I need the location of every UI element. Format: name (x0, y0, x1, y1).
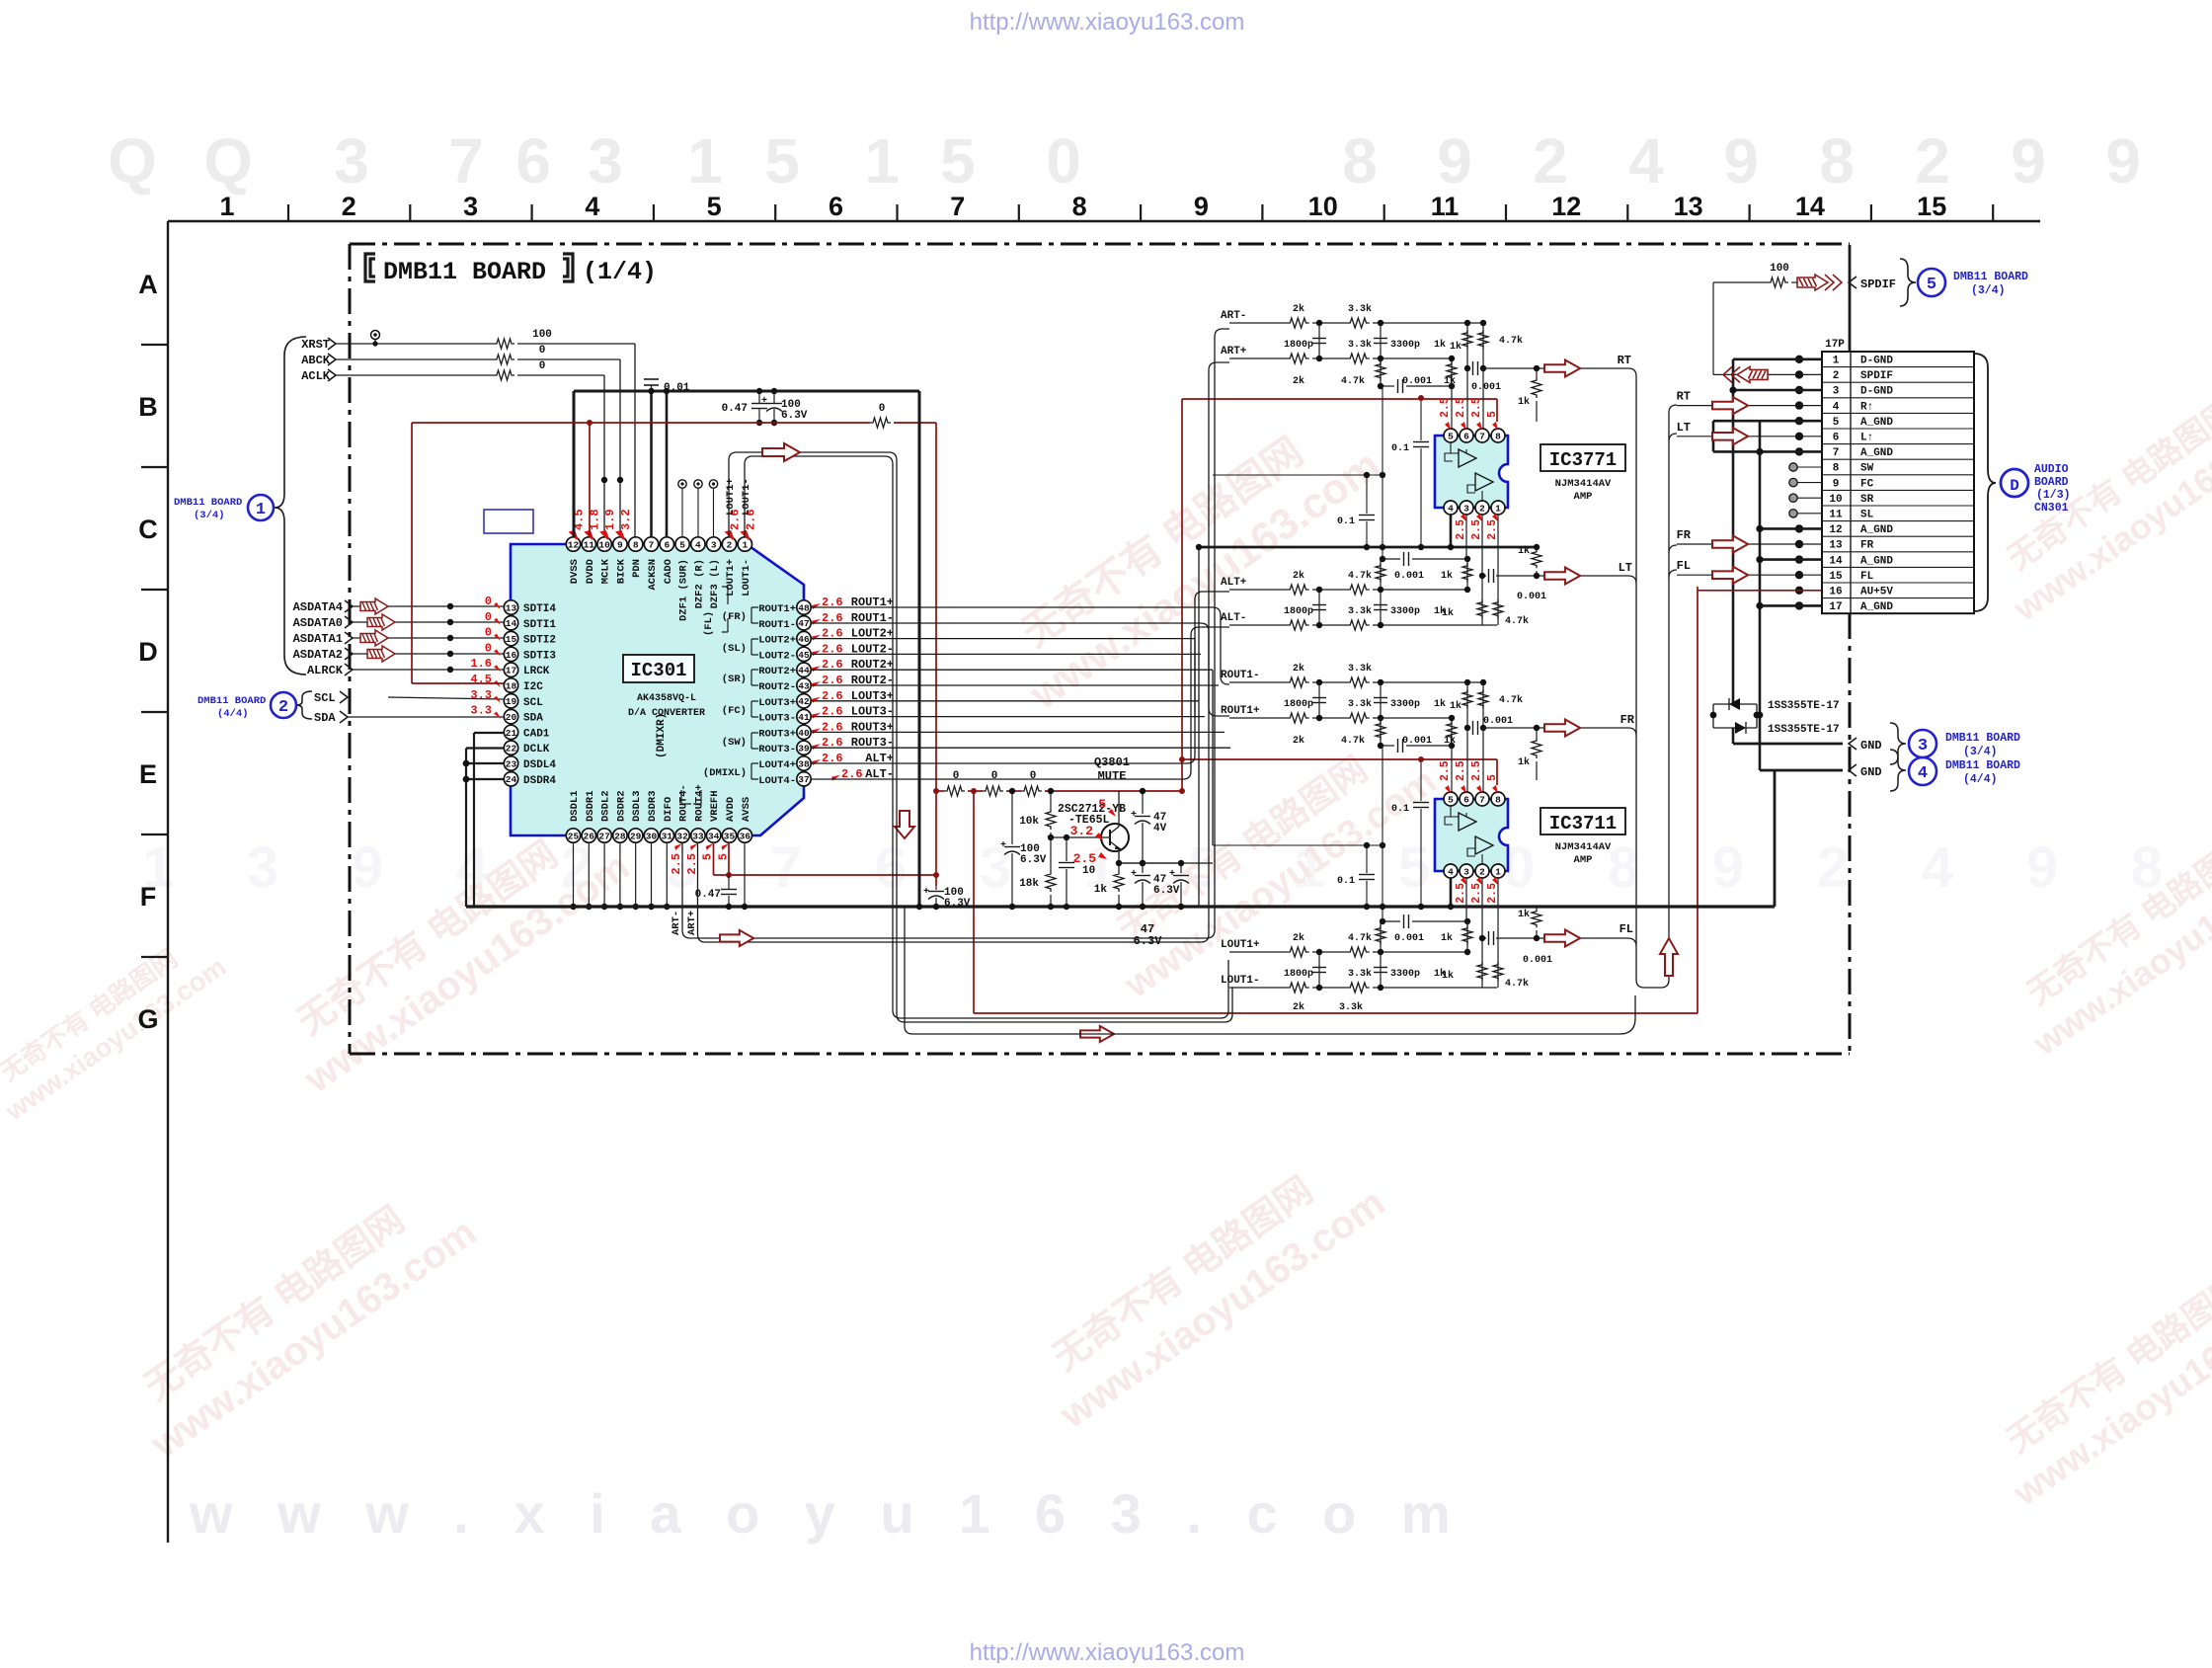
svg-text:8: 8 (1342, 125, 1378, 197)
svg-text:A_GND: A_GND (1860, 601, 1893, 613)
svg-text:2.5: 2.5 (1486, 883, 1499, 904)
wire XRST (336, 343, 494, 345)
resistor 0 (mute rail 3) (1021, 786, 1042, 796)
pin 36 AVSS (738, 829, 751, 842)
resistor 1k pairA (1481, 576, 1483, 625)
svg-text:0.1: 0.1 (1391, 443, 1409, 454)
svg-text:0.1: 0.1 (1391, 804, 1409, 815)
svg-text:2.5: 2.5 (1486, 519, 1499, 540)
svg-text:+: + (1000, 840, 1006, 851)
svg-text:4.7k: 4.7k (1505, 615, 1529, 627)
svg-text:FL: FL (1619, 922, 1633, 936)
svg-text:2: 2 (1833, 370, 1840, 382)
svg-text:IC3711: IC3711 (1549, 813, 1617, 834)
svg-text:17: 17 (1829, 601, 1842, 613)
svg-text:17P: 17P (1825, 339, 1845, 351)
svg-text:1k: 1k (1441, 932, 1453, 944)
svg-text:15: 15 (1829, 571, 1843, 583)
pin 41 LOUT3- (797, 709, 811, 723)
svg-text:3: 3 (980, 835, 1011, 900)
red wire down to I2C (411, 423, 413, 683)
capacitor 47 (right) (1180, 863, 1182, 873)
pin 9 BICK (613, 537, 627, 551)
red arrow on LOUT1 route (762, 443, 800, 461)
svg-text:32: 32 (676, 831, 688, 841)
svg-text:AMP: AMP (1574, 491, 1593, 503)
svg-text:39: 39 (798, 744, 810, 755)
svg-text:DMB11 BOARD: DMB11 BOARD (1945, 759, 2020, 772)
bottom pin ground drops (573, 842, 575, 907)
brace group DMB11 BOARD 2 SCL/SDA (296, 691, 312, 719)
pin 33 ROUT4+ (691, 829, 705, 842)
svg-text:SDTI3: SDTI3 (523, 650, 556, 662)
svg-text:DMB11 BOARD: DMB11 BOARD (197, 695, 266, 707)
svg-text:4: 4 (1922, 835, 1953, 900)
pin 11 DVDD (582, 537, 595, 551)
svg-text:3.3k: 3.3k (1348, 303, 1372, 315)
svg-text:3.2: 3.2 (1070, 824, 1094, 838)
svg-text:1: 1 (1495, 866, 1501, 877)
op IC301 D/A converter body (511, 544, 804, 835)
svg-text:ALT+: ALT+ (1221, 577, 1247, 589)
FR join curve (1628, 728, 1636, 736)
svg-text:8: 8 (1833, 463, 1840, 475)
svg-text:6.3V: 6.3V (1020, 854, 1047, 866)
resistor 4.7k colL (1380, 921, 1382, 952)
IC3771 ground pin4 (1450, 515, 1453, 547)
svg-text:11: 11 (1829, 510, 1843, 521)
capacitor 0.1 B2 (1366, 845, 1368, 873)
svg-text:DSDL4: DSDL4 (523, 759, 556, 771)
pin 22 DCLK (504, 741, 517, 755)
svg-text:3: 3 (588, 125, 623, 197)
wire ABCK (336, 358, 494, 360)
svg-text:7: 7 (1479, 794, 1485, 805)
svg-text:3300p: 3300p (1390, 606, 1420, 617)
wire LOUT2/ROUT2 extensions (894, 638, 1195, 640)
svg-text:13: 13 (1829, 540, 1843, 552)
svg-text:LOUT1-: LOUT1- (741, 559, 752, 596)
vertical trunk x1400 upper (1382, 386, 1383, 559)
wire SDTI4 (353, 605, 504, 607)
svg-text:http://www.xiaoyu163.com: http://www.xiaoyu163.com (970, 9, 1245, 36)
svg-text:33: 33 (692, 831, 704, 841)
capacitor 1800p (1318, 682, 1320, 718)
svg-text:1k: 1k (1450, 341, 1461, 353)
svg-text:42: 42 (798, 696, 810, 707)
wires network ART to IC3771 inputs (1451, 386, 1453, 429)
svg-text:DSDL3: DSDL3 (631, 790, 643, 822)
emitter wire to right column (1119, 862, 1181, 864)
svg-text:8: 8 (1495, 794, 1501, 805)
svg-text:SPDIF: SPDIF (1860, 278, 1896, 291)
pin 32 ROUT4- (675, 829, 689, 842)
connector brace right (1974, 354, 1996, 611)
pin 45 LOUT2- (797, 647, 811, 661)
pin 15 SDTI2 (504, 631, 517, 645)
red trunk x948 (935, 423, 937, 886)
svg-text:4.7k: 4.7k (1341, 735, 1365, 747)
svg-text:0: 0 (953, 770, 960, 782)
svg-text:4: 4 (695, 539, 701, 550)
hatched arrow SPDIF out (1723, 366, 1768, 382)
svg-text:RT: RT (1677, 390, 1691, 404)
svg-text:1k: 1k (1450, 700, 1461, 712)
capacitor 100 6.3V electrolytic on bus (766, 403, 782, 405)
capacitor 1800p (1318, 952, 1320, 988)
svg-text:38: 38 (798, 758, 810, 769)
wire ACKSN to bus (650, 391, 653, 537)
svg-text:LT: LT (1677, 421, 1691, 435)
svg-text:0: 0 (485, 626, 492, 640)
signal rows RT/LT/FR/FL wires (1677, 405, 1822, 407)
op-amp IC3711 body (1435, 799, 1508, 871)
svg-text:1k: 1k (1434, 339, 1446, 351)
svg-text:CADO: CADO (663, 559, 674, 584)
resistor 10k (1050, 791, 1052, 809)
pin 16 SDTI3 (504, 647, 517, 661)
svg-text:24: 24 (506, 774, 517, 785)
pin 31 DIFO (660, 829, 673, 842)
svg-text:(FR): (FR) (722, 611, 747, 623)
svg-text:MUTE: MUTE (1098, 769, 1127, 783)
svg-text:12: 12 (568, 539, 580, 550)
resistor 4.7k pairB (1497, 576, 1499, 625)
svg-text:16: 16 (1829, 587, 1842, 598)
junction dots on clock lines (601, 477, 607, 483)
resistor 1k pairA (1466, 323, 1468, 368)
op-amp A triangle (1459, 449, 1476, 467)
svg-text:(3/4): (3/4) (1971, 284, 2006, 297)
svg-text:1: 1 (1833, 356, 1840, 367)
pin 2 (1475, 501, 1489, 515)
svg-text:0.47: 0.47 (722, 403, 748, 415)
pin 34 VREFH (707, 829, 721, 842)
testpoints above DZF pins (678, 480, 686, 488)
svg-text:E: E (139, 759, 157, 789)
FL out curve (1669, 570, 1677, 578)
svg-text:4.5: 4.5 (470, 673, 492, 686)
svg-text:21: 21 (506, 728, 517, 739)
pin 14 SDTI1 (504, 616, 517, 630)
svg-text:(SW): (SW) (722, 737, 747, 749)
svg-text:22: 22 (506, 744, 517, 755)
svg-text:12: 12 (1829, 524, 1842, 536)
svg-text:ROUT1+: ROUT1+ (1221, 705, 1260, 717)
svg-text:0.001: 0.001 (1471, 382, 1501, 393)
svg-text:ART+: ART+ (686, 911, 698, 935)
svg-text:2.5: 2.5 (1470, 760, 1483, 781)
svg-text:DVDD: DVDD (585, 559, 596, 584)
svg-text:7: 7 (1479, 431, 1485, 441)
pin 29 DSDL3 (629, 829, 643, 842)
svg-text:3.3: 3.3 (470, 704, 492, 718)
pin 5 DZF1 (SUR) (675, 537, 689, 551)
svg-text:12: 12 (1551, 192, 1581, 221)
wire SDTI2 (353, 637, 504, 639)
svg-text:1: 1 (219, 192, 234, 221)
op-amp A triangle (1459, 813, 1476, 831)
svg-text:ART+: ART+ (1221, 346, 1247, 357)
pin 20 SDA (504, 709, 517, 723)
pin 1 (1491, 864, 1505, 878)
wire row2 (1229, 357, 1287, 359)
wire gnd bus to connector (1774, 770, 1777, 907)
svg-text:4: 4 (1918, 764, 1928, 783)
svg-text:AK4358VQ-L: AK4358VQ-L (637, 693, 696, 704)
svg-text:GND: GND (1860, 739, 1882, 753)
svg-text:(1/3): (1/3) (2036, 489, 2071, 502)
svg-text:3300p: 3300p (1390, 699, 1420, 710)
LT join curve (1628, 576, 1636, 584)
capacitor 0.001 tapB (1381, 745, 1394, 747)
svg-text:FR: FR (1860, 540, 1874, 552)
svg-text:A_GND: A_GND (1860, 417, 1893, 429)
svg-text:7: 7 (1833, 447, 1840, 459)
wire row2 (1229, 624, 1287, 626)
svg-text:1800p: 1800p (1284, 340, 1313, 351)
svg-text:18k: 18k (1019, 878, 1039, 890)
pin 23 DSDL4 (504, 756, 517, 770)
svg-text:ROUT4+: ROUT4+ (693, 784, 705, 822)
svg-text:4.7k: 4.7k (1505, 978, 1529, 990)
svg-text:6: 6 (664, 539, 670, 550)
brace GND4 (1890, 750, 1906, 791)
resistor 1k colR (1451, 718, 1453, 746)
svg-text:SDA: SDA (314, 711, 336, 725)
red wire AU+5V (1698, 590, 1822, 592)
svg-text:CAD1: CAD1 (523, 728, 550, 740)
svg-text:1.9: 1.9 (603, 509, 617, 530)
svg-text:43: 43 (798, 680, 810, 691)
svg-text:6: 6 (1463, 431, 1469, 441)
svg-text:4.7k: 4.7k (1499, 694, 1523, 706)
svg-text:11: 11 (584, 539, 595, 550)
pin 30 DSDR3 (644, 829, 658, 842)
svg-text:(3/4): (3/4) (1963, 746, 1998, 758)
svg-text:6.3V: 6.3V (1153, 885, 1180, 897)
capacitor 3300p (1380, 682, 1382, 718)
pin 46 LOUT2+ (797, 631, 811, 645)
pin 24 DSDR4 (504, 772, 517, 786)
pin 1 (1491, 501, 1505, 515)
svg-text:2k: 2k (1293, 1001, 1304, 1013)
svg-text:45: 45 (798, 650, 810, 661)
svg-text:DSDL1: DSDL1 (569, 790, 581, 822)
wire GND 4 (1760, 769, 1843, 772)
svg-text:0.001: 0.001 (1517, 592, 1546, 602)
wire LRCK (353, 669, 504, 671)
svg-text:2.5: 2.5 (1470, 883, 1483, 904)
pin 7 ACKSN (644, 537, 658, 551)
svg-text:1k: 1k (1518, 909, 1530, 920)
IC3771 pins 3,2 to ALT tap (1465, 515, 1467, 559)
svg-text:23: 23 (506, 758, 517, 769)
svg-text:2.5: 2.5 (670, 853, 683, 875)
svg-text:DMB11 BOARD: DMB11 BOARD (1945, 732, 2020, 745)
svg-text:R↑: R↑ (1860, 401, 1873, 413)
red feed IC3771 pin8 (1182, 398, 1497, 400)
pin 2 (1475, 864, 1489, 878)
pin 8 (1491, 429, 1505, 442)
wire ROUT1 pair from pins 48,47 (811, 607, 1229, 684)
svg-text:6.3V: 6.3V (944, 898, 971, 910)
testpoint on XRST (371, 331, 380, 340)
wire row1 (1229, 589, 1287, 591)
svg-text:LOUT4-: LOUT4- (758, 775, 796, 787)
title DMB11 BOARD (1/4) (365, 254, 375, 281)
svg-text:LOUT2+: LOUT2+ (758, 635, 796, 647)
svg-text:2.5: 2.5 (1470, 519, 1483, 540)
svg-text:0.1: 0.1 (1337, 876, 1355, 887)
svg-text:FL: FL (1860, 571, 1874, 583)
pin 1 LOUT1- (738, 537, 751, 551)
svg-text:5: 5 (701, 853, 715, 860)
svg-text:13: 13 (1674, 192, 1703, 221)
pin 12 DVSS (566, 537, 580, 551)
svg-text:10: 10 (1082, 865, 1095, 877)
svg-text:0.001: 0.001 (1394, 571, 1424, 582)
SPDIF loop wire (1713, 373, 1822, 375)
svg-text:ROUT4-: ROUT4- (678, 784, 690, 822)
blue empty annotation box (484, 510, 533, 533)
svg-text:6.3V: 6.3V (781, 410, 808, 422)
wire D-GND trunk (1849, 245, 1852, 352)
IC3711 ground pin4 (1450, 878, 1453, 907)
pin 25 DSDL1 (566, 829, 580, 842)
svg-text:46: 46 (798, 634, 810, 645)
capacitor 0.47 on bus (751, 403, 767, 405)
svg-text:4.7k: 4.7k (1341, 375, 1365, 387)
capacitor 3300p (1380, 952, 1382, 988)
svg-text:Q3801: Q3801 (1094, 755, 1130, 769)
resistor 0 on red net top (870, 418, 891, 428)
svg-text:0: 0 (539, 345, 546, 357)
svg-text:(3/4): (3/4) (194, 510, 225, 521)
wire mid link B (1213, 844, 1382, 846)
svg-text:5: 5 (1448, 794, 1454, 805)
FL join curve (1627, 938, 1636, 946)
svg-text:RT: RT (1618, 354, 1631, 367)
pin 8 (1491, 792, 1505, 806)
node 4 circled (1909, 757, 1936, 785)
svg-text:+: + (1131, 869, 1137, 880)
svg-text:0: 0 (991, 770, 998, 782)
svg-text:2.5: 2.5 (685, 853, 699, 875)
svg-text:A_GND: A_GND (1860, 555, 1893, 567)
ruler: top scale line (168, 220, 2040, 222)
resistor 4.7k pairB (1482, 323, 1484, 368)
svg-text:3.3k: 3.3k (1348, 968, 1372, 980)
svg-text:6: 6 (515, 125, 551, 197)
svg-text:0.001: 0.001 (1483, 716, 1513, 727)
pin 27 DSDL2 (597, 829, 611, 842)
wire mid link A (1213, 474, 1382, 476)
big red hollow arrow down (895, 811, 914, 838)
svg-text:7: 7 (448, 125, 484, 197)
svg-text:4.7k: 4.7k (1499, 335, 1523, 347)
svg-text:0: 0 (1046, 125, 1081, 197)
svg-text:A: A (138, 270, 158, 299)
pin 26 DSDR1 (582, 829, 595, 842)
svg-text:15: 15 (1917, 192, 1946, 221)
wire row2 (1229, 987, 1287, 989)
wire power bus top (574, 390, 919, 393)
svg-text:D: D (138, 637, 158, 667)
wire SDA (348, 716, 504, 718)
svg-text:2k: 2k (1293, 663, 1304, 675)
svg-text:AVDD: AVDD (725, 797, 737, 822)
svg-text:1: 1 (1495, 503, 1501, 514)
svg-text:5: 5 (1448, 431, 1454, 441)
svg-text:A_GND: A_GND (1860, 524, 1893, 536)
svg-text:44: 44 (798, 666, 810, 676)
svg-text:3.3: 3.3 (470, 688, 492, 702)
svg-text:2: 2 (1479, 503, 1485, 514)
svg-text:14: 14 (1829, 555, 1843, 567)
svg-text:DSDR3: DSDR3 (647, 790, 659, 822)
A_GND ladder (1712, 421, 1715, 451)
svg-text:3: 3 (1918, 737, 1928, 755)
IC3711 reference label (1540, 808, 1625, 834)
svg-text:(FC): (FC) (722, 705, 747, 717)
svg-text:D-GND: D-GND (1860, 356, 1893, 367)
svg-text:2k: 2k (1293, 303, 1304, 315)
svg-text:4.7k: 4.7k (1348, 932, 1372, 944)
hatched arrow SPDIF (1797, 275, 1842, 290)
svg-text:0.001: 0.001 (1523, 955, 1552, 966)
red arrow LT (1544, 567, 1580, 584)
svg-text:C: C (138, 515, 158, 544)
capacitor 0.001 tapA (1467, 727, 1470, 729)
red arrow FL (1544, 929, 1580, 946)
pin 19 SCL (504, 694, 517, 708)
red feed IC3711 pin8 (1182, 758, 1497, 760)
svg-text:DSDR1: DSDR1 (585, 790, 596, 822)
svg-text:LOUT1+: LOUT1+ (725, 478, 737, 516)
resistor 4.7k pairB (1497, 938, 1499, 988)
svg-text:100: 100 (532, 329, 552, 341)
svg-text:36: 36 (740, 831, 751, 841)
svg-text:0.1: 0.1 (1337, 516, 1355, 527)
pin 2 LOUT1+ (722, 537, 736, 551)
svg-text:LOUT3-: LOUT3- (758, 713, 796, 725)
svg-text:8: 8 (1495, 431, 1501, 441)
capacitor 47 6.3V (emitter) (1142, 863, 1144, 873)
svg-text:1SS355TE-17: 1SS355TE-17 (1768, 724, 1840, 736)
pin 7 (1475, 429, 1489, 442)
svg-text:9: 9 (352, 835, 383, 900)
svg-text:0: 0 (485, 595, 492, 608)
wire ACLK (336, 374, 494, 376)
svg-text:DIFO: DIFO (663, 797, 674, 822)
svg-text:+: + (761, 396, 767, 407)
svg-text:DZF2 (R): DZF2 (R) (693, 559, 705, 608)
pin 3 DZF3 (L) (707, 537, 721, 551)
svg-text:(4/4): (4/4) (217, 708, 249, 720)
svg-text:(DMIXL): (DMIXL) (703, 767, 747, 779)
svg-text:AU+5V: AU+5V (1860, 587, 1893, 598)
thick vertical x931 (918, 391, 921, 907)
capacitor 0.001 tapU (1382, 558, 1400, 560)
riser trunk RT/LT/FR/FL (1628, 368, 1677, 988)
svg-text:3300p: 3300p (1390, 340, 1420, 351)
pin 5 (1444, 792, 1458, 806)
svg-text:DZF1 (SUR): DZF1 (SUR) (678, 559, 690, 621)
red bottom +5V loop (973, 791, 975, 1013)
pin 4 (1444, 501, 1458, 515)
svg-text:4: 4 (585, 192, 599, 221)
